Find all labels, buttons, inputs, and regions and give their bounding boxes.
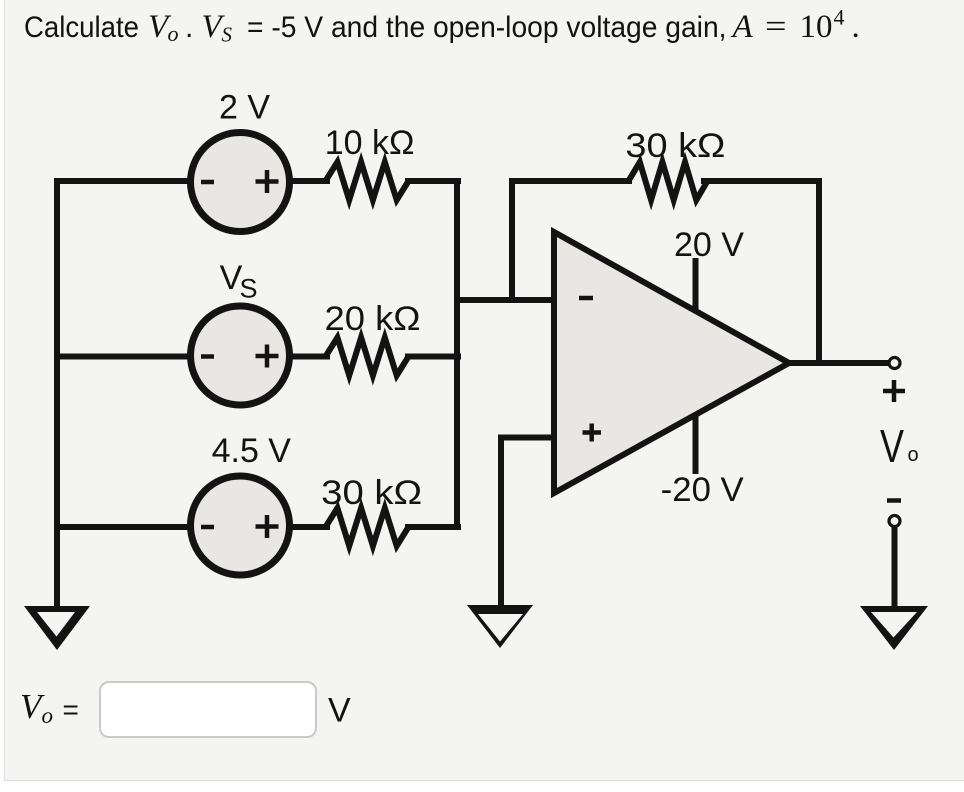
svg-text:V: V [328,692,351,730]
svg-text:30 kΩ: 30 kΩ [625,127,725,165]
svg-text:A: A [731,9,754,45]
svg-text:o: o [168,21,179,46]
svg-text:4: 4 [834,5,845,30]
svg-text:.: . [185,11,193,44]
svg-text:=: = [63,694,79,725]
svg-text:o: o [42,703,54,728]
svg-text:-20 V: -20 V [661,471,744,509]
svg-text:10 kΩ: 10 kΩ [325,124,415,162]
svg-text:o: o [908,444,919,466]
svg-text:S: S [222,23,233,47]
svg-text:30 kΩ: 30 kΩ [321,474,422,512]
svg-text:V: V [880,420,904,472]
svg-text:2 V: 2 V [219,89,270,127]
svg-text:20 V: 20 V [674,226,744,264]
svg-text:.: . [852,9,860,45]
svg-text:S: S [240,274,258,304]
svg-text:= -5 V and the open-loop volta: = -5 V and the open-loop voltage gain, [247,11,727,44]
svg-text:Calculate: Calculate [24,11,139,44]
svg-text:=: = [765,9,787,45]
svg-text:4.5 V: 4.5 V [212,432,292,470]
svg-text:20 kΩ: 20 kΩ [325,300,421,338]
svg-text:10: 10 [800,9,833,45]
